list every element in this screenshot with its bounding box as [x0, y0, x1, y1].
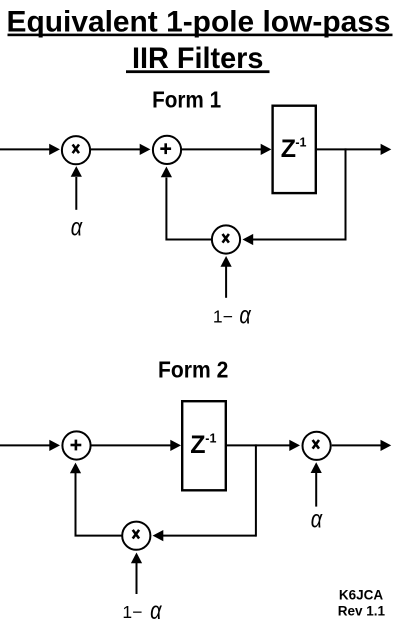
- wire W12: feedback drop (Form 2): [255, 444, 257, 536]
- arrow: 1-alpha into X2: [221, 256, 232, 298]
- multiplier X3: [303, 432, 331, 460]
- label Z^-1 (Z2): [190, 431, 216, 459]
- adder S1: [153, 136, 181, 164]
- svg-text:K6JCA: K6JCA: [339, 588, 384, 603]
- svg-text:-1: -1: [205, 432, 216, 446]
- title underline 2: [126, 70, 270, 73]
- title underline 1: [8, 34, 393, 37]
- delay Z1: [273, 106, 316, 193]
- wire W14: X4 to S2 (left then up): [70, 463, 122, 536]
- svg-text:Form 2: Form 2: [158, 357, 228, 383]
- label 1-alpha (Form 1): [213, 301, 252, 329]
- wire W3: S1 to Z1: [181, 144, 271, 155]
- label Z^-1 (Z1): [281, 135, 307, 163]
- svg-text:α: α: [239, 301, 251, 329]
- wire W5: feedback drop (Form 1): [345, 148, 347, 240]
- svg-text:-1: -1: [295, 135, 306, 149]
- svg-text:Equivalent 1-pole low-pass: Equivalent 1-pole low-pass: [7, 6, 391, 39]
- multiplier X4: [122, 522, 150, 550]
- svg-text:α: α: [150, 597, 162, 625]
- svg-text:Z: Z: [190, 431, 205, 459]
- svg-text:1−: 1−: [122, 602, 142, 622]
- wire W2: X1 to S1: [90, 144, 150, 155]
- adder S2: [62, 431, 90, 459]
- arrow: alpha into X1: [71, 166, 82, 210]
- wire W8: input (Form 2): [0, 440, 60, 451]
- svg-text:α: α: [71, 214, 83, 242]
- svg-text:Z: Z: [281, 135, 296, 163]
- svg-text:α: α: [311, 505, 323, 533]
- svg-text:1−: 1−: [213, 306, 233, 326]
- wire W10: Z2 to X3: [227, 440, 300, 451]
- wire W7: X2 to S1 (left then up): [161, 167, 212, 240]
- wire W11: output (Form 2): [332, 440, 392, 451]
- wire W6: feedback to X2: [243, 234, 346, 245]
- arrow: alpha into X3: [311, 462, 322, 506]
- arrow: 1-alpha into X4: [131, 553, 142, 595]
- svg-text:Rev 1.1: Rev 1.1: [338, 603, 386, 618]
- wire W13: feedback to X4: [153, 530, 256, 541]
- delay Z2: [182, 401, 226, 490]
- wire W4: Z1 output (Form 1): [317, 144, 391, 155]
- label 1-alpha (Form 2): [122, 597, 162, 625]
- wire W9: S2 to Z2: [91, 440, 181, 451]
- svg-text:IIR Filters: IIR Filters: [132, 42, 264, 75]
- multiplier X2: [212, 225, 240, 253]
- multiplier X1: [62, 136, 90, 164]
- svg-text:Form 1: Form 1: [152, 86, 221, 112]
- wire W1: input (Form 1): [0, 144, 60, 155]
